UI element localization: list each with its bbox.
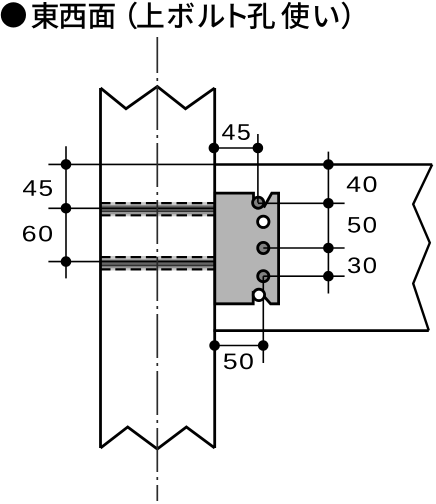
left extension line middle <box>48 207 215 209</box>
bolt hole 4 (with bolt) <box>258 271 269 282</box>
leader from hole 1 <box>258 202 345 204</box>
bolt hole 5 (bottom, empty) <box>253 289 264 300</box>
beam top edge <box>214 163 432 166</box>
post centerline <box>156 37 158 501</box>
post left edge <box>99 88 102 448</box>
dimension label 50 bottom <box>224 353 253 369</box>
left extension line top <box>48 163 214 165</box>
post bottom break line <box>101 427 215 449</box>
beam bottom edge <box>213 329 428 332</box>
dimension label 45 left <box>23 180 52 196</box>
top extension line to hole 1 <box>257 134 259 203</box>
bolt row 2 (lower bolt through post, hidden lines) <box>100 256 216 270</box>
post top break line <box>101 87 215 109</box>
dimension label 45 top <box>222 124 250 140</box>
bolt hole 3 (with bolt) <box>258 242 269 253</box>
title text (drawn as vector glyphs) <box>32 2 350 30</box>
leader from hole 4 <box>263 275 344 277</box>
bottom extension line from hole 4 <box>262 276 264 363</box>
top dimension line 45 <box>214 147 258 149</box>
bolt hole 2 (empty) <box>258 216 269 227</box>
left dimension line <box>65 146 67 278</box>
bolt row 1 (upper bolt through post, hidden lines) <box>100 202 216 216</box>
bracket plate <box>215 193 279 304</box>
dimension label 30 <box>348 257 376 273</box>
post right edge <box>213 88 216 448</box>
dimension label 50 right <box>348 217 376 233</box>
left extension line bottom <box>48 261 215 263</box>
bottom dimension line 50 <box>215 345 264 347</box>
leader from hole 3 <box>263 247 344 249</box>
beam break line <box>413 165 432 331</box>
right dimension line <box>327 152 329 294</box>
dimension dots bottom 50 <box>209 340 220 351</box>
dimension dots top 45 <box>209 143 220 154</box>
title bullet <box>1 2 26 27</box>
dimension dots left <box>61 159 72 170</box>
dimension label 60 left <box>23 226 52 242</box>
bolt hole 1 (top, with bolt) <box>253 197 264 208</box>
dimension dots right <box>323 159 334 170</box>
dimension label 40 <box>347 176 377 192</box>
